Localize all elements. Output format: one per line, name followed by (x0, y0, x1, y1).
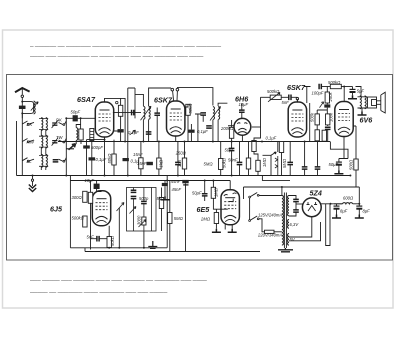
coil osc second (90, 129, 94, 141)
wire det load (231, 120, 233, 142)
capacitor 100pF coupling (319, 84, 321, 90)
node avc a (166, 180, 168, 182)
wire primary top (259, 195, 282, 197)
wire tone right riser (162, 176, 168, 248)
resistor 5k tone (159, 198, 163, 209)
svg-text:6,3V: 6,3V (290, 222, 300, 227)
svg-text:6SK7: 6SK7 (287, 83, 306, 92)
capacitor tone t1 (131, 190, 137, 192)
wire IFT2 left bottom (212, 120, 214, 142)
svg-text:─ ────── ── ─────── ───── ────: ─ ────── ── ─────── ───── ──── ── ──────… (29, 44, 221, 50)
wire screen chain (185, 104, 188, 141)
node gnd j3 (177, 175, 179, 177)
capacitor 5uF decouple (350, 89, 356, 92)
wire det input (228, 103, 242, 126)
wire grid drop 6V6 (343, 87, 345, 103)
wire tube top cap (105, 98, 126, 141)
wire core L3 (39, 155, 48, 166)
capacitor tone a (287, 162, 293, 164)
svg-text:5MΩ: 5MΩ (204, 162, 214, 167)
wire tone verticals (134, 188, 152, 232)
node bus j1 (124, 141, 126, 143)
capacitor blk v4 (324, 104, 330, 107)
wire bottom bus b (85, 251, 260, 253)
wire padder drop (86, 140, 88, 176)
node antenna tap (21, 101, 23, 103)
node gnd j1 (104, 175, 106, 177)
wire plate cap stem (176, 91, 178, 101)
transformer IFT2 (210, 107, 221, 121)
wire fc a stems (336, 204, 338, 215)
wire osc feed (87, 139, 105, 141)
node avc b (204, 180, 206, 182)
winding HV secondary (288, 196, 289, 216)
wire IFT1 left bottom (142, 120, 144, 142)
wire primary bus stub (281, 187, 283, 196)
svg-text:6SA7: 6SA7 (77, 95, 96, 104)
wire osc bottom (76, 140, 81, 144)
node top cap clip (116, 101, 118, 103)
capacitor avc block1 (182, 180, 188, 183)
svg-text:5Z4: 5Z4 (310, 189, 322, 198)
capacitor 0,1uF IF (188, 130, 194, 133)
transformer output primary (360, 96, 362, 109)
capacitor 10uF af (94, 184, 100, 189)
capacitor screen bypass (118, 129, 124, 132)
wire det cap drop (231, 142, 233, 176)
shading 6E5 target (224, 193, 237, 202)
box tone network (127, 188, 157, 232)
wire HV to plate (289, 196, 296, 217)
ground 5uF (348, 95, 357, 99)
wire IFT1 left top (135, 94, 143, 106)
tube 6SK7 V4 (288, 102, 306, 137)
wire stopper stems (326, 87, 328, 114)
capacitor IFT1 sec pad (146, 132, 152, 134)
svg-text:50kΩ: 50kΩ (110, 235, 115, 246)
svg-text:8μF: 8μF (363, 209, 371, 214)
wire 5nf link (91, 238, 110, 240)
tube 6V6 V5 (335, 102, 353, 137)
node gnd j5 (349, 175, 351, 177)
node 6V6 grid (343, 86, 345, 88)
svg-text:50kΩ: 50kΩ (188, 103, 193, 114)
capacitor tone arrows (275, 156, 278, 176)
node gnd j6 (65, 175, 67, 177)
svg-text:1kΩ: 1kΩ (158, 159, 163, 167)
svg-text:15nF: 15nF (133, 152, 143, 157)
wire 0,1uF IF drop (190, 124, 192, 142)
wire IFT2 right bottom (217, 120, 219, 142)
switch mains a (251, 193, 258, 197)
switch wave arrow (130, 130, 136, 135)
node bbus a (118, 247, 120, 249)
wire bottom bus a (70, 247, 167, 249)
capacitor v4 k bypass (302, 167, 308, 169)
svg-text:DK: DK (27, 122, 33, 127)
capacitor filter 8uF b (356, 206, 362, 209)
svg-text:6J5: 6J5 (50, 205, 63, 214)
node bus j6 (231, 141, 233, 143)
wire outer left bus (16, 121, 18, 176)
resistor pot divider b (256, 160, 260, 171)
wire 2M stems (215, 209, 217, 229)
svg-text:50μF: 50μF (192, 191, 202, 196)
wire grid line (66, 117, 95, 119)
ground arrow main (29, 176, 36, 192)
svg-text:250Ω: 250Ω (175, 150, 187, 155)
wire fuse to primary (274, 231, 282, 233)
wire 6H6 cathode drop (241, 135, 243, 141)
coil L2 MW (41, 135, 43, 148)
wire bias drop (140, 142, 142, 176)
node bbus c (108, 247, 110, 249)
node gnd j2 (127, 175, 129, 177)
wire coupling loop (22, 102, 33, 114)
node avc c (212, 180, 214, 182)
svg-text:1MΩ: 1MΩ (214, 187, 219, 197)
wire R to plate node (341, 86, 352, 88)
resistor 6J5 cathode (107, 237, 111, 248)
capacitor ratio det (162, 183, 168, 186)
switch tone lever1 (130, 207, 137, 214)
winding 5V (288, 234, 289, 246)
wire ift1 stub (134, 88, 136, 118)
node bus j7 (261, 141, 263, 143)
svg-text:250k: 250k (328, 92, 333, 103)
capacitor AVC 15nF (147, 162, 153, 165)
coil antenna primary (34, 101, 36, 114)
wire screen 6V6 (330, 126, 356, 159)
resistor 300 ohm (83, 191, 87, 202)
node bus j8 (304, 141, 306, 143)
svg-text:300Ω: 300Ω (72, 195, 83, 200)
wire af stop stems (281, 153, 283, 176)
capacitor padder LW (53, 160, 59, 162)
capacitor IFT2 trimmer (206, 126, 212, 128)
resistor 5M eye (168, 213, 172, 224)
node bus j2 (142, 141, 144, 143)
wire 5M stems (169, 181, 171, 252)
wire plate 6SA7 (113, 112, 141, 114)
node bus j3 (158, 141, 160, 143)
ground OT (358, 112, 367, 116)
wire load chain (317, 110, 328, 130)
svg-text:100k: 100k (328, 112, 333, 122)
node loop bottom (21, 112, 23, 114)
wire af riser (69, 176, 71, 248)
resistor 20k osc (112, 154, 116, 165)
svg-text:TW: TW (56, 135, 64, 140)
resistor cathode 250 (182, 158, 186, 169)
wire HV plate link (296, 203, 304, 205)
wire plate V4 top (297, 87, 310, 103)
capacitor HV rf a (293, 199, 299, 201)
wire AVC R (158, 142, 160, 176)
wire IFT1 sec bottom (148, 120, 150, 142)
wire grid pad stems (156, 108, 158, 142)
wire avc line (70, 180, 230, 182)
wire grid stem V4 (296, 100, 298, 103)
wire block bottom (17, 175, 67, 177)
wire cathode R (184, 142, 186, 176)
transformer output secondary (365, 96, 367, 109)
svg-text:500kΩ: 500kΩ (328, 80, 341, 85)
resistor 500k grid 6V6 (330, 84, 341, 88)
svg-text:5MΩ: 5MΩ (282, 158, 287, 168)
wire IFT2 right top (218, 103, 227, 106)
band MW row (22, 135, 66, 148)
wire cap to R (321, 86, 330, 88)
svg-text:2MΩ: 2MΩ (200, 217, 211, 222)
winding primary (282, 196, 284, 246)
transformer IFT1 (141, 106, 152, 120)
tube 6SA7 V1 (95, 102, 113, 137)
wire 45nF drop (185, 184, 187, 252)
resistor af grid leak (88, 192, 92, 203)
diode elements 6H6 (237, 123, 247, 134)
node filter out (358, 203, 360, 205)
wire B+ top (356, 87, 362, 97)
svg-text:─── ───── ─── ────── ──── ───: ─── ───── ─── ────── ──── ─── ────── ── … (29, 278, 207, 284)
svg-text:EL: EL (27, 159, 33, 164)
svg-text:50pF: 50pF (71, 110, 81, 115)
svg-text:50μF: 50μF (329, 162, 339, 167)
wire sw stem (271, 142, 278, 176)
resistor det load 200k (229, 127, 233, 138)
wire V4 cathode col (309, 103, 311, 142)
resistor grid stopper (325, 92, 329, 103)
wire 6H6 link (252, 126, 261, 128)
resistor 2M 6E5 (214, 213, 218, 224)
capacitor tuning gang arrow (69, 144, 76, 150)
tube 6J5 V6 (92, 191, 110, 226)
wire cathode drop (104, 137, 106, 176)
wire fcb stems (358, 204, 360, 215)
resistor V4 low a (315, 130, 319, 141)
tube 5Z4 V8 (302, 198, 321, 217)
resistor pot divider a (252, 141, 256, 152)
node B out (330, 203, 332, 205)
resistor V4 load b (326, 114, 330, 125)
svg-text:500pF: 500pF (91, 145, 103, 150)
switch S2b (59, 139, 67, 143)
speaker cone (377, 92, 386, 113)
wire 50uF stems (204, 181, 206, 202)
switch S1b (59, 121, 67, 125)
svg-text:10n: 10n (177, 159, 182, 167)
node gnd j4 (231, 175, 233, 177)
capacitor IFT1 trimmer (132, 110, 134, 116)
wire B+ riser (244, 187, 360, 204)
svg-text:200kΩ: 200kΩ (220, 126, 234, 131)
wire screen riser low (355, 126, 357, 187)
node primary stub (281, 186, 283, 188)
svg-text:6V6: 6V6 (360, 116, 374, 125)
wire mains b to fuse (259, 219, 265, 232)
node osc feed (104, 139, 106, 141)
capacitor trimmer KW (52, 120, 59, 128)
resistor V4 low b (322, 130, 326, 141)
svg-text:600Ω: 600Ω (343, 195, 354, 200)
wire heater tap (262, 176, 290, 181)
svg-text:50nF: 50nF (228, 158, 238, 163)
switch mains b (251, 216, 258, 220)
wire screen (113, 98, 121, 141)
capacitor 50pF grid (73, 115, 78, 121)
node grid left (65, 117, 67, 119)
wire switch link (249, 198, 251, 220)
wire det to plate (241, 113, 243, 119)
speaker magnet (372, 100, 377, 106)
wire cath cap (177, 142, 179, 176)
wire 6E5 cathode (231, 225, 233, 229)
wire af cap stem (97, 181, 102, 192)
resistor screen dropper (354, 159, 358, 170)
svg-text:50kΩ: 50kΩ (222, 157, 227, 168)
tube 6SK7 V2 (167, 101, 185, 136)
wire OT ground (361, 108, 363, 112)
wire ratio det (164, 181, 166, 197)
resistor af stop (279, 142, 283, 153)
capacitor cathode 10n (175, 162, 181, 164)
node grid tap (80, 117, 82, 119)
wire choke out (353, 203, 360, 205)
wire AVC mid resistor (219, 159, 223, 170)
svg-text:1MΩ: 1MΩ (262, 157, 267, 167)
svg-text:DK: DK (56, 118, 62, 123)
wire core OT (358, 97, 368, 108)
wire low stems (317, 130, 324, 141)
capacitor 5nF coupling (289, 95, 291, 101)
ground 6E5 (228, 229, 237, 233)
capacitor filter 8uF a (334, 206, 340, 209)
svg-text:6E5: 6E5 (197, 205, 211, 214)
coil oscillator (76, 128, 78, 141)
capacitor 0,1uF cathode (89, 157, 96, 160)
node grid cap V2 (171, 88, 174, 91)
switch tone lever2 (139, 220, 147, 228)
potentiometer 500k (270, 95, 281, 99)
resistor screen 6SK7 (186, 104, 190, 115)
ground fcb (355, 215, 364, 219)
wire v4 k stems (304, 142, 306, 176)
ground transformer (278, 248, 293, 252)
svg-text:5MΩ: 5MΩ (174, 216, 184, 221)
tube 6E5 V7 (221, 190, 239, 225)
wire 6J5 cathode (108, 226, 110, 248)
capacitor 50uF 6E5 (202, 194, 208, 196)
switch S2a (22, 139, 34, 142)
wiper arrow pot (268, 93, 280, 102)
wire pot body (118, 208, 120, 248)
capacitor 10pF det (239, 110, 245, 112)
svg-text:5nF: 5nF (282, 100, 290, 105)
capacitor 0,1uF screen (123, 158, 129, 161)
wire filter link (334, 203, 343, 205)
capacitor IF bypass (200, 113, 206, 115)
wire bypass drop (202, 116, 204, 122)
svg-text:220V/340mA: 220V/340mA (257, 232, 282, 237)
resistor screen 6SA7 (118, 105, 122, 116)
svg-text:50kΩ: 50kΩ (107, 153, 112, 164)
antenna (15, 88, 30, 98)
fuse mains (265, 230, 275, 233)
capacitor v4 g2 byp (315, 167, 321, 169)
wire osc grid drop (80, 118, 82, 131)
svg-text:───── ── ─────── ──── ───────: ───── ── ─────── ──── ─────── ─── ─── ──… (29, 290, 168, 296)
wire avc cap stems (239, 142, 241, 176)
capacitor 50pF det (229, 148, 235, 150)
wire 5V return (289, 222, 321, 241)
wire cath cap stems (338, 159, 340, 171)
svg-text:0,1μF: 0,1μF (197, 129, 208, 134)
capacitor grid pad V2 (154, 113, 160, 115)
resistor det out (246, 158, 250, 169)
wire plate rf stems (327, 129, 329, 141)
switch S1a (22, 121, 34, 124)
capacitor avc 50nF (237, 162, 243, 164)
svg-text:0,1μF: 0,1μF (128, 130, 139, 135)
capacitor HV rf b (293, 210, 299, 212)
capacitor 5nF af (97, 236, 99, 242)
svg-text:500Ω: 500Ω (348, 159, 353, 170)
node block ground tap (32, 175, 34, 177)
switch tone s (263, 152, 277, 155)
node plate cap V2 (176, 88, 179, 91)
wire avc r stems (220, 142, 222, 176)
wire antenna lead (21, 98, 23, 119)
svg-text:10μF: 10μF (239, 102, 249, 107)
svg-text:0,1μF: 0,1μF (266, 136, 277, 141)
wire pot feed (254, 97, 261, 175)
ground bottom mid (148, 241, 157, 248)
capacitor 500pF padder (83, 145, 90, 148)
wire pot left (261, 96, 271, 98)
wire trimmer arrow (31, 102, 38, 111)
wire plate top loop (177, 88, 213, 106)
wire core L2 (39, 136, 48, 147)
wire grid leak stems (90, 181, 92, 250)
svg-text:15nF: 15nF (137, 161, 147, 166)
svg-text:100μF: 100μF (312, 91, 324, 96)
svg-text:500kΩ: 500kΩ (72, 216, 85, 221)
wire tone drop (143, 231, 145, 248)
wire B out (320, 203, 342, 205)
capacitor tone 500p (141, 201, 147, 203)
ground cath cap (334, 170, 343, 174)
capacitor antenna series (19, 106, 26, 109)
ground 2M (212, 229, 221, 233)
wire gang bar (66, 148, 74, 150)
capacitor avc bars (183, 184, 188, 186)
ground ratio det (161, 196, 170, 200)
svg-text:50pF: 50pF (225, 148, 235, 153)
wire 6E5 left leg (224, 224, 226, 229)
coil tone 3000 (142, 217, 146, 225)
wire coil stack links (41, 118, 46, 170)
wire 6E5 grid drop (229, 181, 231, 190)
switch S3b (59, 158, 67, 162)
svg-text:45nF: 45nF (172, 187, 182, 192)
transformer core (284, 193, 286, 249)
resistor AVC 1k (157, 158, 161, 169)
wire 5uF stem (352, 87, 354, 96)
wire osc tie (76, 125, 80, 128)
coil L3 LW (41, 154, 43, 167)
svg-text:45nF: 45nF (171, 179, 181, 184)
resistor V4 plate load (315, 114, 319, 125)
